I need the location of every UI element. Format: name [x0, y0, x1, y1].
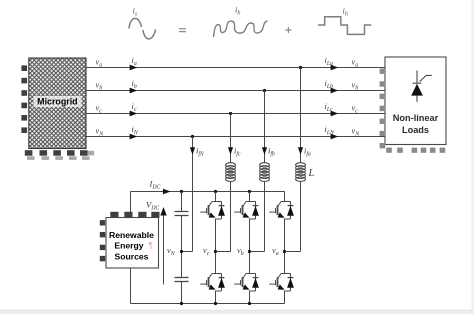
inductor Lc — [226, 163, 236, 167]
inductor Lb — [260, 163, 270, 167]
junction node on bus (phase c) — [229, 112, 232, 115]
junction node: leg b midpoint — [248, 250, 251, 253]
junction node on bus (phase a) — [299, 66, 302, 69]
renewable block top terminal pads — [110, 212, 159, 218]
svg-text:vc: vc — [96, 103, 103, 114]
svg-text:Microgrid: Microgrid — [37, 97, 77, 107]
current IDC arrow and label on positive rail — [163, 189, 171, 195]
Microgrid bottom terminal pads — [25, 150, 88, 156]
Microgrid left terminal pads — [21, 65, 27, 133]
wire: leg c emitter drop to negative rail — [215, 291, 217, 304]
wire: phase c bus from Microgrid to loads — [86, 113, 385, 115]
IGBT Q1 with antiparallel diode D1 — [200, 202, 225, 220]
IGBT Q5 with antiparallel diode D5 — [269, 202, 294, 220]
wire: renewable source to negative rail — [130, 268, 132, 304]
junction node: cap branch on positive rail — [180, 190, 183, 193]
svg-text:vN: vN — [96, 126, 105, 137]
wire: leg a midpoint to filter inductor — [285, 251, 301, 253]
svg-text:ih: ih — [343, 6, 348, 18]
Microgrid source block U1 — [29, 58, 86, 149]
svg-text:IDC: IDC — [149, 179, 161, 191]
wire: leg c midpoint section — [215, 219, 217, 274]
current ifN arrow and label — [190, 147, 195, 155]
junction node: capacitor midpoint (neutral) — [180, 250, 183, 253]
IGBT Q2 with antiparallel diode D2 — [269, 274, 294, 292]
load block bottom terminal pads — [386, 148, 445, 153]
wire: leg b collector drop — [249, 192, 251, 202]
svg-text:Non-linear: Non-linear — [393, 113, 439, 123]
svg-text:va: va — [352, 57, 359, 68]
wire: cap branch lower — [181, 282, 183, 304]
wire: cap branch middle — [181, 216, 183, 278]
svg-text:VDC: VDC — [146, 200, 159, 212]
current ib arrow and label (source side) — [130, 88, 138, 94]
wire: cap branch upper — [181, 192, 183, 212]
wire: filter branch ifc drop — [230, 114, 232, 163]
wire: leg b midpoint section — [249, 219, 251, 274]
current iLb arrow and label (load side) — [331, 88, 339, 94]
current iN arrow and label (source side) — [130, 134, 138, 140]
current ic arrow and label (source side) — [130, 111, 138, 117]
VDC annotation arrow — [163, 210, 165, 285]
junction node: cap branch on negative rail — [180, 302, 183, 305]
capacitor C1 (upper DC-link) — [175, 211, 189, 213]
current ifc arrow and label — [228, 147, 233, 155]
junction node: leg c midpoint — [214, 250, 217, 253]
current ifa arrow and label — [298, 147, 303, 155]
plus sign — [285, 27, 291, 33]
wire: phase b bus from Microgrid to loads — [86, 90, 385, 92]
junction node: leg c on negative rail — [214, 302, 217, 305]
Microgrid bottom pad shadow row — [27, 151, 94, 160]
svg-text:iLb: iLb — [325, 79, 334, 90]
thyristor SCR1 inside load block — [411, 71, 432, 102]
svg-text:iLc: iLc — [325, 102, 334, 113]
svg-text:vb: vb — [96, 80, 103, 91]
equals sign — [179, 29, 186, 32]
IGBT Q3 with antiparallel diode D3 — [234, 202, 259, 220]
current ifb arrow and label — [262, 147, 267, 155]
svg-text:Renewable: Renewable — [109, 230, 154, 240]
wire: DC negative rail — [131, 303, 285, 305]
junction node on bus (phase b) — [263, 89, 266, 92]
svg-text:L: L — [308, 168, 315, 179]
Renewable Energy Sources block U3 — [106, 218, 159, 269]
capacitor C2 (lower DC-link) — [175, 277, 189, 279]
svg-text:vN: vN — [167, 246, 176, 257]
wire: neutral to capacitor midpoint — [182, 251, 193, 253]
waveform: source current is (sine) — [129, 18, 156, 39]
svg-text:vN: vN — [352, 126, 361, 137]
junction node: leg b on positive rail — [248, 190, 251, 193]
svg-text:ifb: ifb — [268, 147, 275, 158]
svg-text:iLN: iLN — [325, 125, 336, 136]
svg-text:ia: ia — [132, 56, 137, 67]
svg-text:ifc: ifc — [234, 147, 241, 158]
wire: leg b emitter drop to negative rail — [249, 291, 251, 304]
junction node: leg a midpoint — [283, 250, 286, 253]
svg-text:ib: ib — [132, 79, 137, 90]
wire: filter branch ifa drop — [300, 68, 302, 163]
svg-text:vc: vc — [352, 103, 359, 114]
svg-text:ifa: ifa — [304, 147, 311, 158]
wire: phase a bus from Microgrid to loads — [86, 67, 385, 69]
wire: leg c collector drop — [215, 192, 217, 202]
svg-text:iN: iN — [132, 125, 139, 136]
waveform: fundamental-plus-ripple current ib — [214, 21, 268, 37]
junction node: leg b on negative rail — [248, 302, 251, 305]
wire: inductor to inverter midpoint — [230, 182, 232, 252]
svg-text:¶: ¶ — [149, 241, 153, 250]
current iLa arrow and label (load side) — [331, 65, 339, 71]
svg-text:vb: vb — [237, 246, 244, 257]
wire: leg c midpoint to filter inductor — [216, 251, 231, 253]
wire: positive rail to renewable source — [130, 192, 132, 213]
junction node: leg c on positive rail — [214, 190, 217, 193]
svg-text:Sources: Sources — [115, 252, 149, 262]
IGBT Q4 with antiparallel diode D4 — [200, 274, 225, 292]
wire: leg a collector drop — [284, 192, 286, 202]
svg-text:vc: vc — [203, 246, 210, 257]
Non-linear Loads block U2 — [385, 57, 446, 145]
svg-text:ic: ic — [132, 102, 137, 113]
svg-text:ib: ib — [235, 5, 240, 17]
junction node on neutral bus — [191, 135, 194, 138]
renewable block left terminal pads — [100, 220, 105, 261]
page edge shading (decorative) — [0, 311, 474, 314]
svg-text:Energy: Energy — [114, 241, 143, 251]
current ia arrow and label (source side) — [130, 65, 138, 71]
wire: leg a emitter drop to negative rail — [284, 291, 286, 304]
svg-text:is: is — [133, 6, 138, 18]
wire: phase N bus from Microgrid to loads — [86, 136, 385, 138]
inductor La — [296, 163, 306, 167]
svg-text:va: va — [96, 57, 103, 68]
wire: DC positive rail — [131, 191, 285, 193]
svg-text:vb: vb — [352, 80, 359, 91]
svg-text:ifN: ifN — [196, 147, 205, 158]
wire: leg a midpoint section — [284, 219, 286, 274]
IGBT Q6 with antiparallel diode D6 — [234, 274, 259, 292]
waveform: harmonic current ih (quasi-square) — [318, 17, 371, 35]
wire: inductor to inverter midpoint — [264, 182, 266, 252]
wire: filter branch ifb drop — [264, 91, 266, 163]
current iLc arrow and label (load side) — [331, 111, 339, 117]
wire: inductor to inverter midpoint — [300, 182, 302, 252]
svg-text:Loads: Loads — [402, 125, 429, 135]
load block left terminal pads — [380, 69, 386, 149]
svg-text:va: va — [272, 246, 279, 257]
wire: leg b midpoint to filter inductor — [250, 251, 265, 253]
svg-text:iLa: iLa — [325, 56, 334, 67]
current iLN arrow and label (load side) — [331, 134, 339, 140]
wire: neutral filter branch ifN drop — [192, 137, 194, 252]
